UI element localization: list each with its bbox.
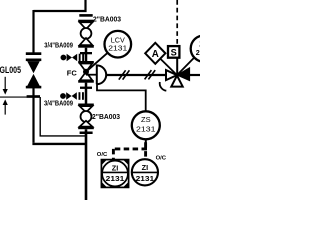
signal line A to valve [158, 57, 177, 76]
stub valve 3/4"BA009 upper [61, 54, 85, 62]
lead line actuator to ZS [97, 84, 146, 112]
svg-text:2"BA003: 2"BA003 [92, 112, 120, 121]
svg-text:2131: 2131 [136, 174, 155, 183]
instrument bubble LCV 2131 [105, 31, 132, 58]
wire top feed elbow [34, 0, 86, 11]
flange bar [80, 52, 92, 54]
svg-text:ZS: ZS [141, 115, 151, 124]
flange pair left branch [26, 52, 42, 55]
control valve FC [78, 61, 96, 83]
3-way valve [166, 68, 190, 87]
svg-text:2131: 2131 [196, 48, 200, 57]
fail-position arc [160, 82, 167, 91]
valve 2"BA003 upper (ball valve) [78, 20, 94, 48]
svg-text:A: A [152, 49, 159, 60]
svg-text:3/4"BA009: 3/4"BA009 [44, 42, 73, 49]
valve GL005 (closed gate valve) [26, 59, 42, 89]
flange bar below FC [80, 87, 92, 89]
flange tee bar on inlet [27, 95, 40, 98]
dashed signal from top to S box [176, 0, 178, 46]
svg-text:2131: 2131 [136, 125, 156, 134]
svg-text:O/C: O/C [156, 156, 167, 162]
line break symbol 1 [119, 70, 130, 79]
svg-text:2131: 2131 [108, 44, 127, 53]
spec break arrow (up) [3, 99, 8, 114]
svg-text:S: S [171, 47, 177, 57]
interlock diamond A [145, 43, 165, 64]
wire ZS stem [145, 139, 147, 142]
instrument bubble ZI 2131 (shared display) [132, 159, 158, 185]
stub valve 3/4"BA009 lower [60, 92, 84, 100]
valve stem to S box [176, 58, 178, 75]
svg-text:3/4"BA009: 3/4"BA009 [44, 101, 73, 108]
wire bypass run [40, 97, 86, 136]
valve 2"BA003 lower (ball valve) [78, 104, 94, 130]
wire inlet line from left edge [0, 96, 40, 98]
svg-text:GL005: GL005 [0, 65, 22, 76]
actuator port D [97, 65, 106, 84]
svg-text:2131: 2131 [106, 174, 125, 183]
wire main column drop to bottom [85, 129, 88, 200]
pipe run to 3-way valve [106, 74, 165, 76]
svg-text:ZI: ZI [142, 163, 149, 172]
solenoid box S [168, 46, 179, 58]
wire bottom run to main column [32, 143, 86, 145]
svg-text:2"BA003: 2"BA003 [93, 15, 121, 24]
svg-text:O/C: O/C [97, 152, 108, 158]
svg-text:FC: FC [67, 69, 78, 78]
pipe out right [190, 74, 200, 76]
spec break arrow (down) [3, 77, 8, 95]
svg-text:ZI: ZI [112, 163, 119, 172]
signal line valve to LCV [86, 53, 108, 72]
instrument bubble right edge (clipped) [191, 36, 217, 62]
line break symbol 2 [145, 70, 156, 79]
instrument bubble ZS 2131 [132, 111, 160, 139]
shared display ZI 2131 (circle in square, black corners) [101, 160, 128, 188]
cap blind flange on top of valve BA003 [79, 14, 92, 17]
wire main column segment [85, 48, 88, 62]
flange bar below lower valve [80, 132, 93, 135]
signal line right bubble to valve [177, 58, 194, 76]
wire left riser [32, 10, 34, 53]
wire left drop [32, 88, 34, 143]
wire main column segment [85, 83, 88, 104]
DCS data links (thick dashed) [113, 142, 147, 159]
